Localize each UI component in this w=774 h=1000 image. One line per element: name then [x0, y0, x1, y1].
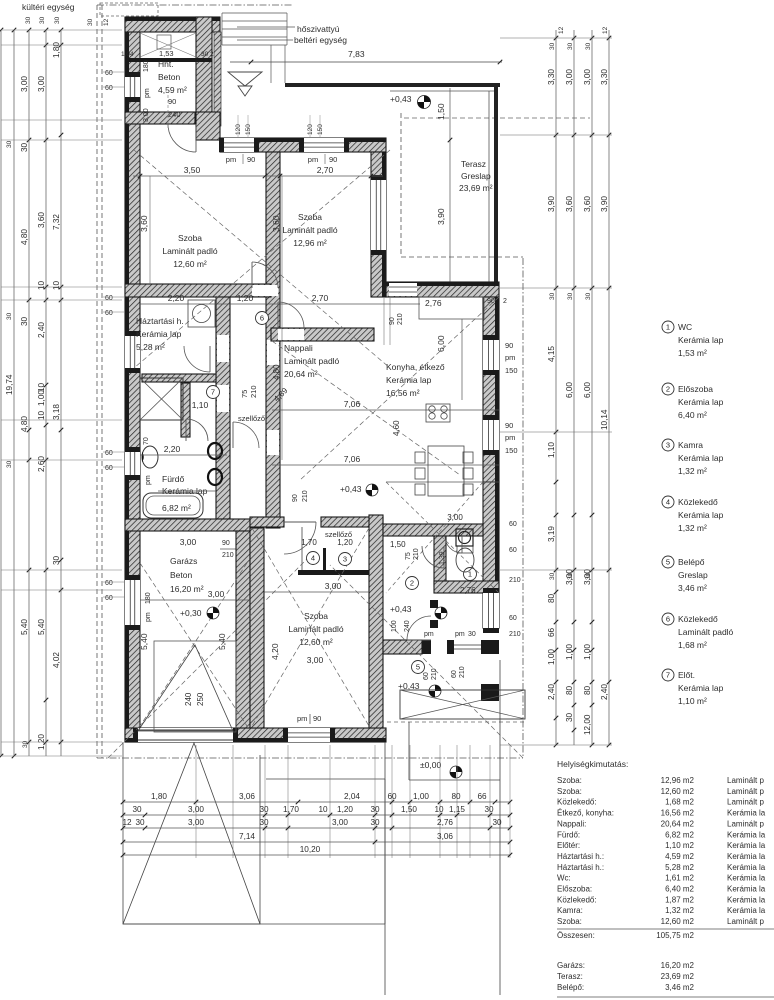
- svg-text:+0,43: +0,43: [340, 484, 362, 494]
- dim row under bedrooms 2,20 1,20 2,70: [140, 303, 420, 305]
- svg-text:1,70: 1,70: [301, 538, 317, 547]
- svg-text:Közlekedő:: Közlekedő:: [557, 798, 597, 807]
- cell west thin line: [301, 527, 303, 570]
- partition at elot: [181, 383, 190, 437]
- svg-text:1,32 m²: 1,32 m²: [678, 523, 707, 533]
- terrace interior dim line vertical: [449, 88, 451, 284]
- garage east wall: [236, 531, 250, 728]
- svg-text:30: 30: [585, 292, 592, 300]
- nappali north wall: [271, 328, 374, 341]
- circled 7: [207, 386, 220, 399]
- north wall of utility block: [125, 17, 220, 32]
- svg-text:Laminált p: Laminált p: [727, 776, 764, 785]
- svg-text:Összesen:: Összesen:: [557, 931, 595, 940]
- svg-text:30: 30: [468, 631, 476, 638]
- svg-text:Konyha, étkező: Konyha, étkező: [386, 362, 445, 372]
- svg-text:Előszoba:: Előszoba:: [557, 885, 592, 894]
- svg-text:Laminált padló: Laminált padló: [282, 225, 338, 235]
- kitchen counter outline: [419, 297, 484, 319]
- svg-text:Wc:: Wc:: [557, 874, 571, 883]
- svg-text:60: 60: [105, 85, 113, 92]
- terrace east edge double line: [488, 91, 490, 295]
- door bedroom1: [252, 262, 278, 288]
- svg-text:3,00: 3,00: [20, 76, 29, 92]
- svg-text:23,69 m2: 23,69 m2: [661, 972, 695, 981]
- lower east exterior wall: [483, 482, 499, 628]
- svg-text:szellőző: szellőző: [238, 414, 265, 423]
- svg-text:4,80: 4,80: [272, 364, 281, 380]
- svg-text:1,20: 1,20: [237, 293, 254, 303]
- svg-text:Garázs: Garázs: [170, 556, 197, 566]
- cell partition between 4 and 3: [323, 548, 326, 570]
- utility-bedroom join wall: [196, 112, 220, 140]
- svg-text:Kerámia lap: Kerámia lap: [678, 453, 724, 463]
- svg-text:5,40: 5,40: [37, 619, 46, 635]
- svg-text:Közlekedő:: Közlekedő:: [557, 895, 597, 904]
- leader line to heat pump text: [237, 26, 295, 28]
- wall fixtures furdo east: [208, 443, 222, 459]
- svg-text:3,46 m2: 3,46 m2: [665, 983, 694, 992]
- funnel symbol: [228, 72, 262, 86]
- svg-text:1,10: 1,10: [547, 442, 556, 458]
- belepo platform with X: [400, 690, 525, 719]
- svg-text:3,60: 3,60: [37, 212, 46, 228]
- svg-text:30: 30: [567, 42, 574, 50]
- svg-text:30: 30: [484, 805, 494, 814]
- svg-text:1,50: 1,50: [436, 103, 446, 120]
- svg-text:16,56 m2: 16,56 m2: [661, 809, 695, 818]
- svg-text:5,28 m2: 5,28 m2: [665, 863, 694, 872]
- washbasin wc: [456, 529, 473, 546]
- eave dashed terrace west: [400, 113, 402, 257]
- svg-text:2,20: 2,20: [168, 293, 185, 303]
- svg-text:90: 90: [505, 341, 513, 350]
- svg-text:Greslap: Greslap: [678, 570, 708, 580]
- svg-text:7,83: 7,83: [348, 49, 365, 59]
- svg-text:10,20: 10,20: [300, 845, 321, 854]
- svg-text:5: 5: [666, 558, 670, 567]
- svg-text:6: 6: [666, 615, 670, 624]
- interior small blocks eloszoba: [430, 600, 438, 608]
- bedroom east / terrace wall: [371, 152, 386, 297]
- svg-text:Laminált padló: Laminált padló: [288, 624, 344, 634]
- svg-text:30: 30: [6, 140, 13, 148]
- svg-text:240: 240: [184, 692, 193, 706]
- svg-text:30: 30: [259, 805, 269, 814]
- roof hip dashed south-east: [330, 565, 523, 758]
- svg-text:3,00: 3,00: [143, 108, 150, 122]
- window north wall bedroom1: [224, 138, 254, 152]
- svg-text:2,40: 2,40: [547, 684, 556, 700]
- szoba3 east wall: [369, 515, 383, 728]
- svg-text:90: 90: [292, 494, 299, 502]
- long vertical extension x385: [384, 742, 386, 995]
- svg-text:Greslap: Greslap: [461, 171, 491, 181]
- dashed line under platform: [380, 721, 525, 723]
- dim 7,06 line 2: [272, 464, 499, 466]
- svg-text:1,00: 1,00: [413, 792, 429, 801]
- svg-text:30: 30: [20, 316, 29, 326]
- svg-text:2,40: 2,40: [600, 684, 609, 700]
- legend item 4 Közlekedő: [662, 496, 674, 508]
- hall walls north of kamra: [383, 524, 483, 536]
- svg-text:Terasz:: Terasz:: [557, 972, 583, 981]
- svg-text:Kamra: Kamra: [678, 440, 703, 450]
- door bedroom2 to nappali: [278, 302, 304, 328]
- svg-text:60: 60: [509, 615, 517, 622]
- svg-text:pm: pm: [505, 433, 515, 442]
- svg-text:2,70: 2,70: [312, 293, 329, 303]
- svg-text:12,96 m2: 12,96 m2: [661, 776, 695, 785]
- svg-text:4,02: 4,02: [52, 652, 61, 668]
- svg-text:210: 210: [222, 552, 234, 559]
- svg-text:Kerámia la: Kerámia la: [727, 885, 766, 894]
- svg-text:30: 30: [549, 572, 556, 580]
- driveway left edge: [122, 742, 124, 924]
- svg-text:30: 30: [25, 16, 32, 24]
- svg-text:Garázs:: Garázs:: [557, 961, 585, 970]
- svg-text:4,59 m²: 4,59 m²: [158, 85, 187, 95]
- svg-text:1,39: 1,39: [439, 551, 446, 565]
- svg-text:30: 30: [567, 292, 574, 300]
- svg-text:90: 90: [487, 298, 495, 305]
- left dimension chains: [0, 30, 2, 756]
- west exterior wall: [125, 18, 140, 742]
- svg-text:pm: pm: [505, 353, 515, 362]
- svg-text:3,60: 3,60: [271, 215, 281, 232]
- svg-text:2: 2: [210, 51, 214, 58]
- svg-text:1,53 m²: 1,53 m²: [678, 348, 707, 358]
- svg-text:beltéri egység: beltéri egység: [294, 35, 347, 45]
- kitchen counter east leg: [461, 319, 463, 400]
- svg-text:30: 30: [135, 818, 145, 827]
- svg-text:60: 60: [423, 672, 430, 680]
- bottom dim line y828: [123, 827, 510, 829]
- window kitchen east 2: [483, 420, 499, 450]
- svg-text:12,60 m²: 12,60 m²: [173, 259, 207, 269]
- svg-text:+0,43: +0,43: [390, 604, 412, 614]
- svg-text:10: 10: [37, 410, 46, 420]
- svg-text:5,40: 5,40: [139, 633, 149, 650]
- svg-text:210: 210: [397, 313, 404, 325]
- svg-text:90: 90: [329, 155, 337, 164]
- svg-text:Kerámia lap: Kerámia lap: [136, 329, 182, 339]
- svg-text:Nappali: Nappali: [284, 343, 313, 353]
- svg-text:3,50: 3,50: [184, 165, 201, 175]
- roof dashed eloszoba diagonal 2: [386, 482, 483, 593]
- window west wall utility: [125, 336, 140, 368]
- svg-text:Kamra:: Kamra:: [557, 906, 583, 915]
- svg-text:60: 60: [451, 670, 458, 678]
- door furdo: [233, 422, 259, 448]
- svg-text:Szoba:: Szoba:: [557, 917, 582, 926]
- svg-text:80: 80: [451, 792, 461, 801]
- svg-text:kültéri egység: kültéri egység: [22, 2, 75, 12]
- corridor north wall over cells: [321, 517, 383, 527]
- svg-text:3,46 m²: 3,46 m²: [678, 583, 707, 593]
- svg-text:Belépő: Belépő: [678, 557, 705, 567]
- svg-text:pm: pm: [455, 631, 465, 638]
- svg-text:3,00: 3,00: [307, 655, 324, 665]
- kitchen north wall (terrace south): [386, 282, 499, 297]
- svg-text:3,00: 3,00: [188, 805, 204, 814]
- hall west wall (utility/elot/furdo east): [216, 297, 230, 519]
- svg-text:Szoba:: Szoba:: [557, 776, 582, 785]
- svg-text:90: 90: [505, 421, 513, 430]
- svg-text:3: 3: [666, 441, 670, 450]
- roof dashed eloszoba diagonal: [386, 482, 499, 593]
- circled 3: [339, 553, 352, 566]
- svg-text:30: 30: [259, 818, 269, 827]
- svg-text:Beton: Beton: [158, 72, 180, 82]
- floor line kitchen-eloszoba: [386, 481, 499, 483]
- svg-text:250: 250: [196, 692, 205, 706]
- szoba3 north wall west segment: [250, 517, 284, 527]
- svg-text:Közlekedő: Közlekedő: [678, 497, 718, 507]
- svg-text:6,82 m2: 6,82 m2: [665, 830, 694, 839]
- svg-text:120: 120: [307, 124, 314, 135]
- circled 1: [464, 568, 477, 581]
- vertical dim line bedroom2 side: [281, 176, 283, 460]
- door wc: [422, 546, 444, 568]
- svg-text:30: 30: [565, 712, 574, 722]
- svg-text:Háztartási h.:: Háztartási h.:: [557, 852, 604, 861]
- svg-text:1,20: 1,20: [337, 805, 353, 814]
- svg-text:Kerámia la: Kerámia la: [727, 895, 766, 904]
- svg-text:12,60 m2: 12,60 m2: [661, 787, 695, 796]
- svg-text:240: 240: [404, 620, 411, 632]
- svg-text:210: 210: [249, 385, 258, 398]
- window south wall szoba3: [288, 728, 330, 742]
- svg-text:30: 30: [132, 805, 142, 814]
- svg-text:2,70: 2,70: [317, 165, 334, 175]
- svg-text:Szoba: Szoba: [304, 611, 328, 621]
- garage door triangle: [138, 645, 233, 731]
- right chain connector lines: [500, 37, 612, 39]
- svg-text:Laminált padló: Laminált padló: [162, 246, 218, 256]
- svg-text:10: 10: [434, 805, 444, 814]
- svg-text:80: 80: [565, 685, 574, 695]
- svg-text:pm: pm: [297, 714, 307, 723]
- svg-text:±0,00: ±0,00: [420, 760, 441, 770]
- svg-text:2: 2: [666, 385, 670, 394]
- legend item 2 Előszoba: [662, 383, 674, 395]
- door haztartasi: [184, 346, 210, 372]
- west exterior wall outer black edge: [125, 17, 129, 742]
- svg-text:1,10: 1,10: [192, 400, 209, 410]
- roof dashed nappali diagonal 2: [300, 297, 499, 480]
- eave outline dash-dot bottom: [97, 757, 523, 759]
- svg-text:+0,30: +0,30: [180, 608, 202, 618]
- platform vertical lines at stairs: [270, 45, 272, 83]
- eave outline dash-dot top: [97, 4, 292, 6]
- svg-text:60: 60: [105, 450, 113, 457]
- svg-text:60: 60: [105, 465, 113, 472]
- svg-text:2,76: 2,76: [437, 818, 453, 827]
- circled 4: [307, 552, 320, 565]
- svg-text:30: 30: [20, 142, 29, 152]
- roof dashed garage X1: [140, 563, 247, 726]
- svg-text:66: 66: [477, 792, 487, 801]
- svg-text:240: 240: [168, 110, 181, 119]
- svg-text:1,32 m²: 1,32 m²: [678, 466, 707, 476]
- svg-text:3,00: 3,00: [208, 589, 225, 599]
- svg-text:16,20 m2: 16,20 m2: [661, 961, 695, 970]
- utility block divider black band: [125, 58, 212, 62]
- svg-text:3,00: 3,00: [37, 76, 46, 92]
- svg-text:30: 30: [549, 292, 556, 300]
- window west wall garage: [125, 580, 140, 625]
- partition between bedrooms and hall spine: [266, 152, 280, 528]
- stove with burners: [426, 404, 450, 422]
- door arc into cells corridor: [284, 522, 316, 554]
- svg-text:180: 180: [145, 592, 152, 604]
- svg-text:Laminált padló: Laminált padló: [284, 356, 340, 366]
- svg-text:Kerámia lap: Kerámia lap: [678, 683, 724, 693]
- svg-text:Kerámia la: Kerámia la: [727, 841, 766, 850]
- svg-text:+0,43: +0,43: [390, 94, 412, 104]
- svg-text:30: 30: [87, 18, 94, 26]
- door elot: [186, 419, 208, 441]
- window north wall bedroom2: [304, 138, 344, 152]
- svg-text:1,70: 1,70: [283, 805, 299, 814]
- svg-text:1: 1: [666, 323, 670, 332]
- svg-text:hőszivattyú: hőszivattyú: [297, 24, 340, 34]
- utility block south wall: [125, 112, 195, 124]
- svg-text:Fürdő: Fürdő: [162, 474, 184, 484]
- dim 2,20 furdo: [140, 454, 227, 456]
- svg-text:30: 30: [22, 740, 29, 748]
- svg-text:1,80: 1,80: [151, 792, 167, 801]
- svg-text:Hht.: Hht.: [158, 59, 174, 69]
- szoba3 top dim: [264, 591, 369, 593]
- dashed eave north of terrace: [404, 117, 590, 119]
- wall between kozlekedo and wc: [434, 536, 446, 586]
- svg-text:Kerámia lap: Kerámia lap: [386, 375, 432, 385]
- bottom dim line y842: [123, 841, 375, 843]
- svg-text:Laminált padló: Laminált padló: [678, 627, 734, 637]
- svg-text:7,06: 7,06: [344, 399, 361, 409]
- svg-text:4,15: 4,15: [547, 346, 556, 362]
- eave outline dash-dot right lower: [522, 258, 524, 758]
- svg-text:180: 180: [143, 60, 150, 72]
- cells south thin black wall (szoba3 north): [298, 570, 372, 575]
- washing machine utility: [188, 300, 215, 327]
- bottom dim line y855: [123, 854, 510, 856]
- svg-text:20,64 m²: 20,64 m²: [284, 369, 318, 379]
- svg-text:30: 30: [54, 16, 61, 24]
- circled 5: [412, 661, 425, 674]
- door utility block: [168, 124, 196, 152]
- legend item 6 Közlekedő: [662, 613, 674, 625]
- svg-text:pm: pm: [308, 155, 318, 164]
- svg-text:150: 150: [317, 124, 324, 135]
- svg-text:210: 210: [413, 548, 420, 560]
- svg-text:3,18: 3,18: [52, 404, 61, 420]
- svg-text:6,40 m2: 6,40 m2: [665, 885, 694, 894]
- driveway right edge: [259, 755, 261, 924]
- wc south wall: [434, 581, 499, 593]
- window west wall furdo: [125, 452, 140, 475]
- svg-text:+0,43: +0,43: [398, 681, 420, 691]
- szoba3 west wall: [250, 528, 264, 728]
- svg-text:Kerámia la: Kerámia la: [727, 863, 766, 872]
- svg-text:Laminált p: Laminált p: [727, 917, 764, 926]
- utility upper closet diagonals: [140, 33, 196, 57]
- svg-text:120: 120: [235, 124, 242, 135]
- svg-text:1,20: 1,20: [337, 538, 353, 547]
- vertical dim line bedroom1: [149, 176, 151, 284]
- svg-text:Kerámia la: Kerámia la: [727, 830, 766, 839]
- terrace door in bedroom east wall: [371, 180, 386, 250]
- svg-text:3: 3: [343, 555, 347, 564]
- dining table: [428, 446, 464, 496]
- svg-text:210: 210: [509, 631, 521, 638]
- walkway bottom line: [123, 923, 385, 925]
- svg-text:10: 10: [318, 805, 328, 814]
- svg-text:60: 60: [509, 521, 517, 528]
- svg-text:Háztartási h.:: Háztartási h.:: [557, 863, 604, 872]
- long vertical extension x500: [499, 660, 501, 995]
- svg-text:4,20: 4,20: [270, 643, 280, 660]
- svg-text:1,32 m2: 1,32 m2: [665, 906, 694, 915]
- svg-text:12,60 m2: 12,60 m2: [661, 917, 695, 926]
- svg-text:12: 12: [103, 18, 110, 26]
- svg-text:1,10 m²: 1,10 m²: [678, 696, 707, 706]
- svg-text:1,87 m2: 1,87 m2: [665, 895, 694, 904]
- svg-text:3,90: 3,90: [436, 208, 446, 225]
- legend item 7 Előt.: [662, 669, 674, 681]
- svg-text:90: 90: [168, 97, 176, 106]
- svg-text:80: 80: [547, 593, 556, 603]
- svg-text:12,00: 12,00: [583, 714, 592, 735]
- svg-text:12,96 m²: 12,96 m²: [293, 238, 327, 248]
- svg-text:19,74: 19,74: [5, 374, 14, 395]
- svg-text:30: 30: [370, 805, 380, 814]
- terrace north edge thick: [285, 83, 500, 87]
- eave outline dashed left double: [96, 5, 98, 758]
- svg-text:80: 80: [583, 685, 592, 695]
- roof dashed garage X2: [140, 563, 247, 726]
- svg-text:3,00: 3,00: [325, 581, 342, 591]
- svg-text:30: 30: [549, 42, 556, 50]
- svg-text:3,30: 3,30: [547, 69, 556, 85]
- svg-text:7,14: 7,14: [239, 832, 255, 841]
- svg-text:Szoba: Szoba: [178, 233, 202, 243]
- svg-text:30: 30: [52, 555, 61, 565]
- svg-text:1,15: 1,15: [449, 805, 465, 814]
- svg-text:30: 30: [585, 42, 592, 50]
- svg-text:90: 90: [313, 714, 321, 723]
- svg-text:60: 60: [105, 295, 113, 302]
- svg-text:2,40: 2,40: [37, 322, 46, 338]
- svg-text:90: 90: [247, 155, 255, 164]
- dim line 7,83: [230, 61, 502, 63]
- svg-text:Kerámia la: Kerámia la: [727, 874, 766, 883]
- svg-text:60: 60: [509, 547, 517, 554]
- svg-text:Laminált p: Laminált p: [727, 798, 764, 807]
- svg-text:2,76: 2,76: [425, 298, 442, 308]
- svg-text:2,04: 2,04: [344, 792, 360, 801]
- svg-text:Szoba: Szoba: [298, 212, 322, 222]
- svg-text:1,04: 1,04: [121, 51, 134, 58]
- svg-text:75: 75: [240, 390, 249, 398]
- svg-text:3,60: 3,60: [565, 196, 574, 212]
- svg-text:Fürdő:: Fürdő:: [557, 830, 580, 839]
- svg-text:6,00: 6,00: [565, 382, 574, 398]
- svg-text:30: 30: [6, 312, 13, 320]
- garage dims: [140, 599, 250, 601]
